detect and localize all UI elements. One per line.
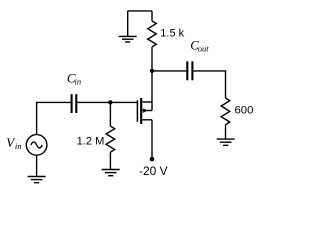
resistor R1 1.5 k bbox=[148, 11, 157, 71]
wire node to Cout bbox=[152, 70, 186, 72]
ground (right, load) bbox=[217, 139, 235, 145]
ground (middle, under R2) bbox=[102, 170, 120, 176]
label Cin bbox=[67, 70, 81, 86]
wire Vin bottom to ground bbox=[36, 155, 38, 176]
label Vin bbox=[6, 135, 21, 151]
resistor RL 600 bbox=[221, 98, 230, 139]
svg-text:-20 V: -20 V bbox=[139, 164, 168, 178]
svg-text:in: in bbox=[75, 77, 82, 87]
wire Cout to RL bbox=[193, 71, 225, 98]
svg-text:out: out bbox=[198, 43, 210, 53]
svg-text:600: 600 bbox=[235, 104, 254, 116]
resistor R2 1.2 M bbox=[106, 102, 115, 169]
capacitor Cout bbox=[187, 61, 192, 80]
wire top rail (ground to R1) bbox=[128, 10, 152, 12]
terminal -20 V bbox=[150, 157, 155, 162]
ground (left, under Vin) bbox=[28, 177, 46, 183]
node gate junction bbox=[108, 100, 112, 104]
node drain junction bbox=[150, 69, 154, 73]
wire source to supply bbox=[151, 120, 153, 159]
wire Vin to Cin bbox=[37, 102, 71, 134]
label Cout bbox=[190, 37, 209, 53]
wire drain/body vertical bbox=[151, 71, 153, 111]
wire gate (Cin to Q1 gate) bbox=[77, 101, 137, 103]
svg-text:1.5 k: 1.5 k bbox=[160, 27, 184, 39]
capacitor Cin bbox=[72, 94, 77, 113]
transistor Q1 (p-channel D-MOSFET) bbox=[137, 98, 152, 124]
ground (top, drain supply) bbox=[119, 11, 137, 42]
svg-text:1.2 M: 1.2 M bbox=[77, 135, 105, 147]
source Vin (AC source) bbox=[26, 135, 47, 156]
svg-text:in: in bbox=[15, 141, 22, 151]
